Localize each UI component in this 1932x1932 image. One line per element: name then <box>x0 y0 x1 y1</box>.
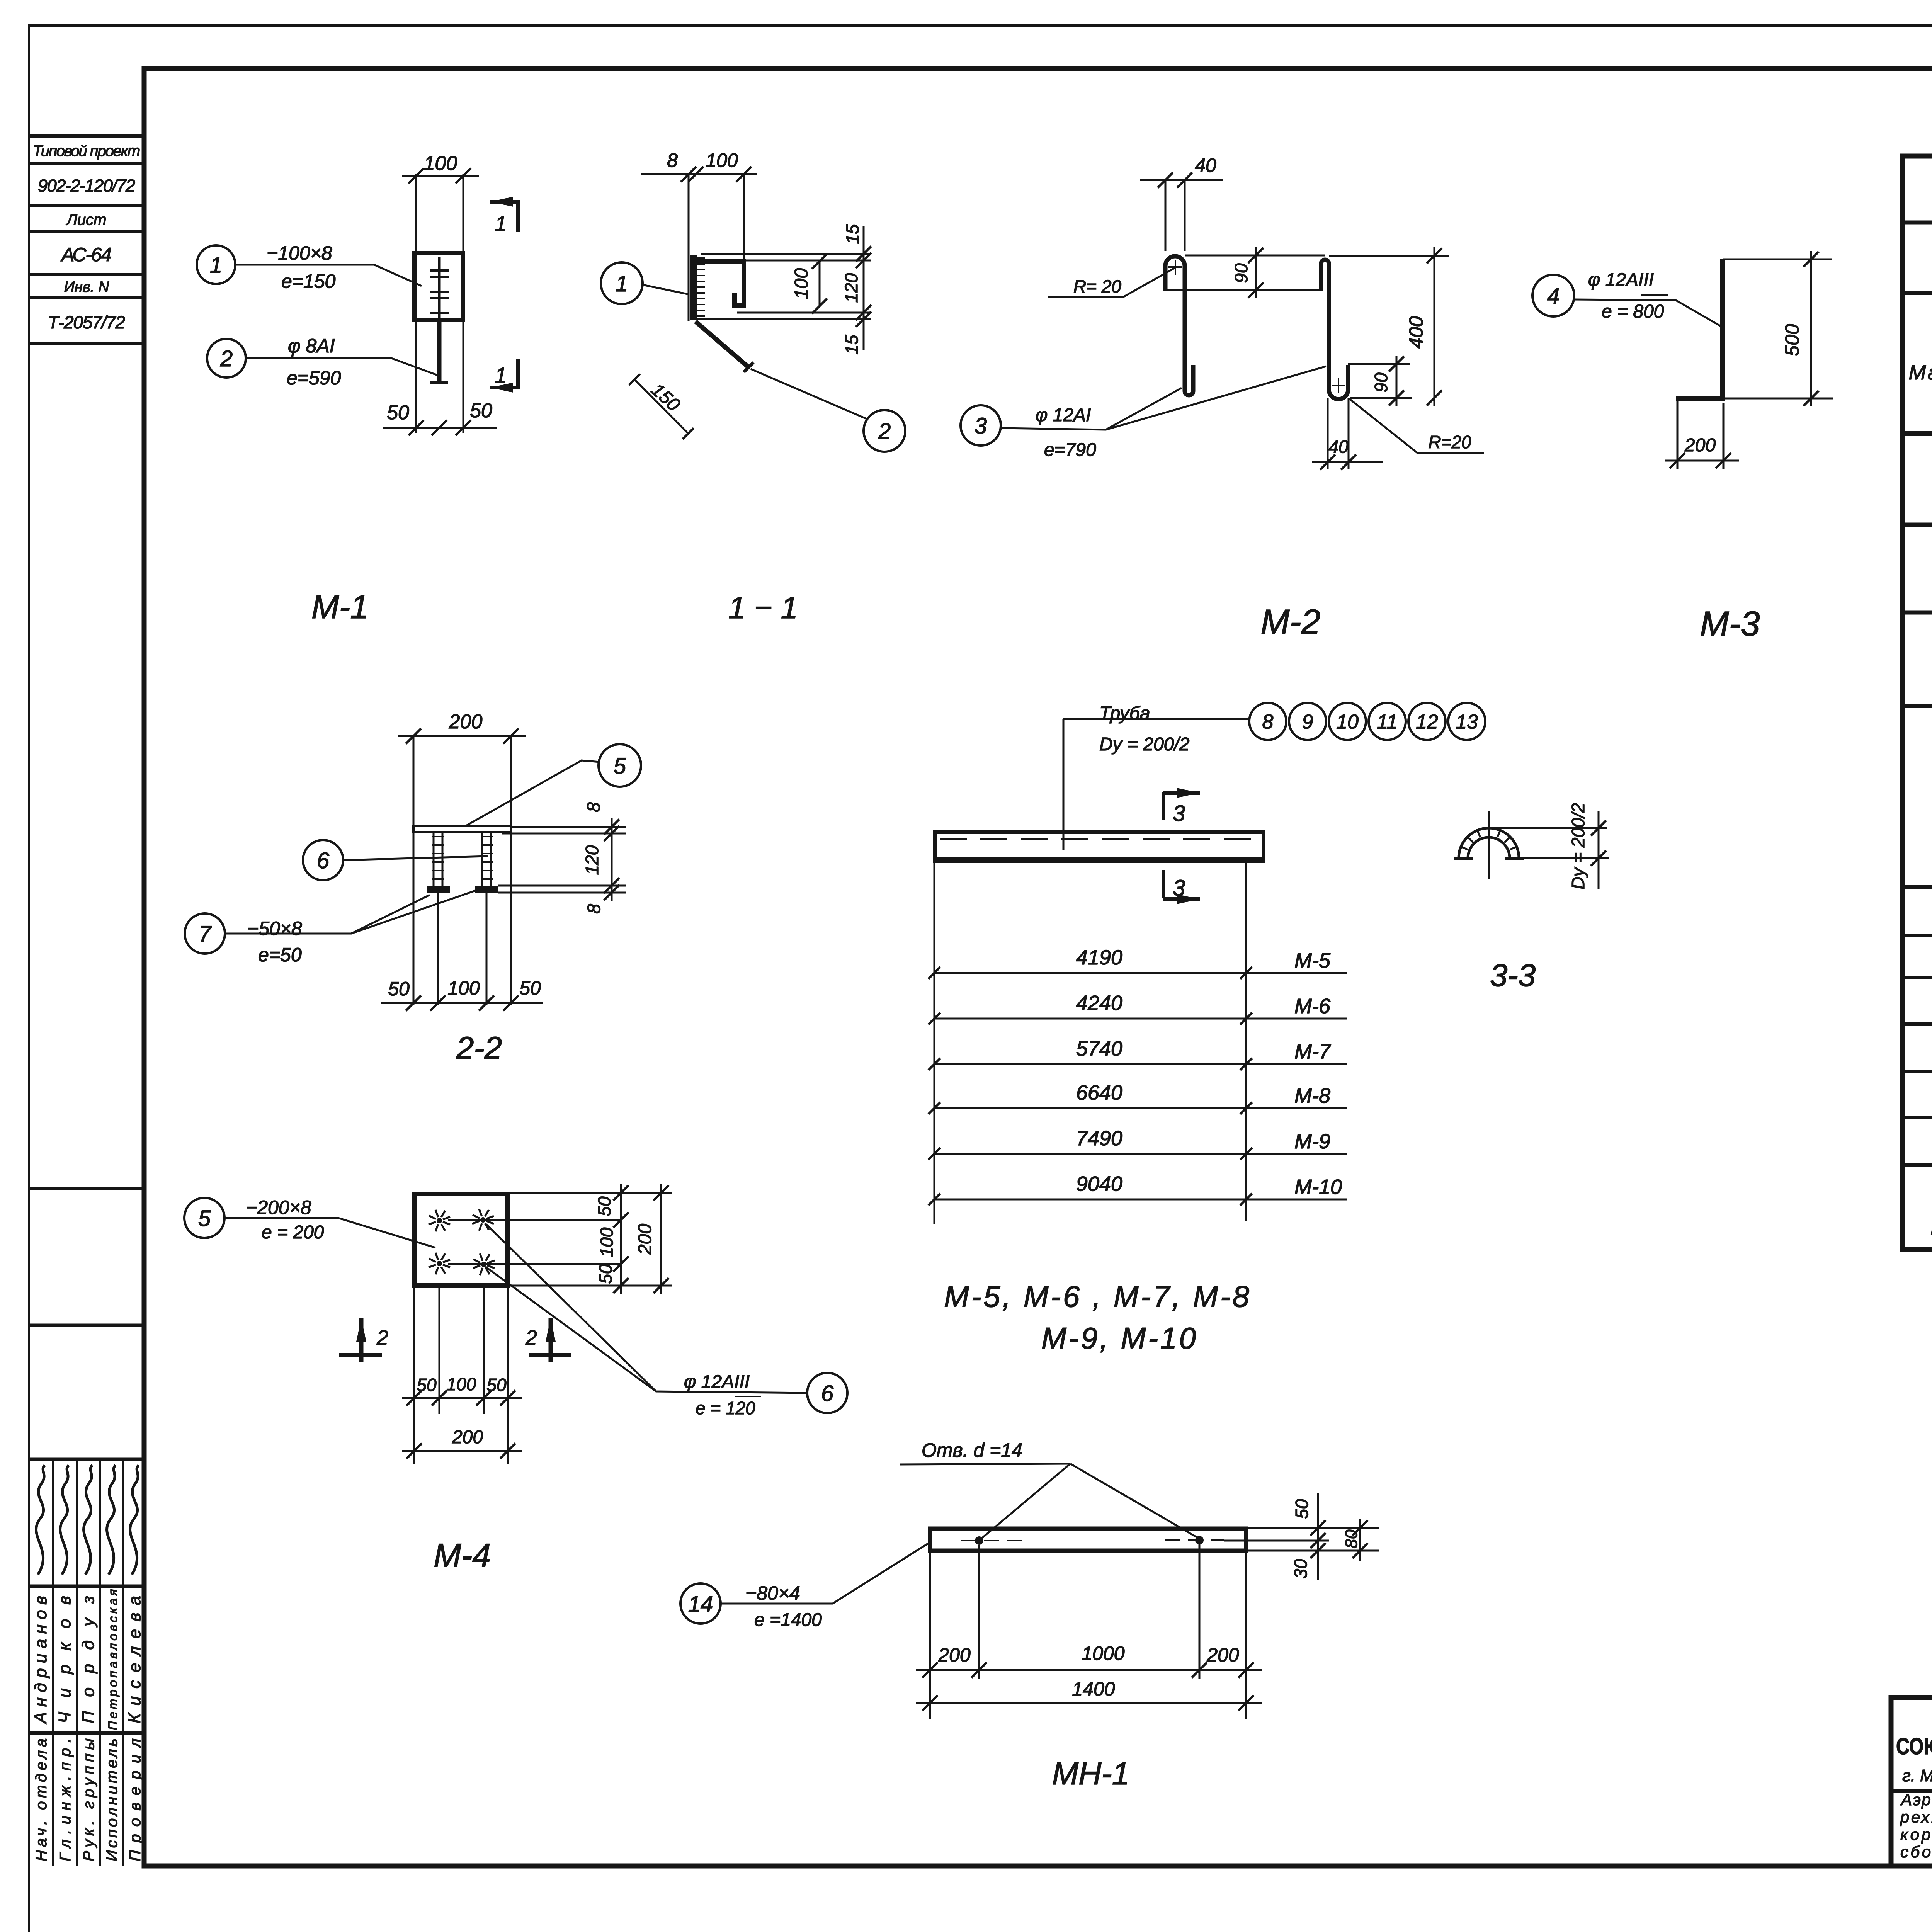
length row М-6 = 4240 <box>934 1018 1347 1020</box>
leader circle 3 (M-2) φ12AI e=790 <box>961 405 1001 446</box>
MH-1 dimension 200/1000/200 <box>916 1669 1262 1671</box>
detail 2-2 stud center extension lines <box>437 893 439 1005</box>
svg-text:9040: 9040 <box>1076 1172 1122 1196</box>
svg-text:200: 200 <box>449 711 483 733</box>
detail 1-1 diagonal dimension 150 <box>634 379 688 434</box>
leader circle 2 (M-1) with label φ8AI e=590 <box>207 339 246 378</box>
detail M-1 section mark 1 bottom <box>516 359 520 388</box>
spec table column header underline <box>1902 431 1932 436</box>
svg-text:СОЮЗВОДОКАНАЛПРОЕКТ: СОЮЗВОДОКАНАЛПРОЕКТ <box>1896 1733 1932 1759</box>
svg-text:−80×4: −80×4 <box>745 1582 800 1604</box>
detail M-4 plate edge extension lines <box>508 1192 672 1194</box>
detail M-1 anchor symbols <box>438 257 441 320</box>
svg-text:e = 200: e = 200 <box>262 1222 324 1243</box>
svg-text:3: 3 <box>1173 876 1185 901</box>
plan plate bottom edge thick <box>935 857 1264 862</box>
svg-text:М-2: М-2 <box>1261 603 1321 641</box>
svg-text:e =1400: e =1400 <box>754 1610 822 1630</box>
svg-text:МН-1: МН-1 <box>1052 1756 1129 1791</box>
spec table outer border <box>1902 156 1932 1250</box>
left strip stamp boxes <box>29 134 144 138</box>
svg-text:30: 30 <box>1291 1559 1311 1579</box>
svg-text:90: 90 <box>1231 263 1251 283</box>
svg-text:Аэротенки- смесители четы-: Аэротенки- смесители четы- <box>1900 1791 1932 1809</box>
svg-text:8: 8 <box>667 150 678 171</box>
svg-text:5740: 5740 <box>1076 1037 1122 1060</box>
svg-text:40: 40 <box>1328 437 1349 457</box>
svg-text:Инв. N: Инв. N <box>64 279 109 295</box>
svg-text:−200×8: −200×8 <box>246 1197 311 1218</box>
detail M-4 bottom dimension 50/100/50 <box>402 1397 522 1399</box>
svg-text:10: 10 <box>1336 711 1359 733</box>
detail M-4 bottom extension verticals <box>413 1286 415 1464</box>
svg-text:15: 15 <box>842 224 862 244</box>
svg-text:50: 50 <box>388 978 410 1000</box>
detail M-4 bottom dimension 200 <box>402 1450 522 1452</box>
detail 2-2 top dimension 200 <box>398 735 526 737</box>
svg-text:100: 100 <box>597 1227 617 1257</box>
svg-text:М-5, М-6 , М-7, М-8: М-5, М-6 , М-7, М-8 <box>944 1279 1249 1313</box>
svg-text:6: 6 <box>821 1381 834 1406</box>
svg-text:2: 2 <box>376 1326 388 1349</box>
detail 1-1 plate (section, filled) <box>690 255 697 320</box>
detail M-4 center dashes <box>448 1220 474 1221</box>
leader circle 1 (M-1) with label -100x8 e=150 <box>197 245 235 284</box>
half-pipe end caps <box>1454 857 1473 860</box>
detail 2-2 right stud <box>481 832 483 886</box>
leader circle 1 (1-1) <box>601 262 643 304</box>
svg-text:М-4: М-4 <box>434 1537 491 1574</box>
svg-text:7490: 7490 <box>1076 1127 1122 1150</box>
leader circle 6 (M-4) φ12AIII e=120 <box>807 1373 847 1413</box>
svg-text:Отв. d =14: Отв. d =14 <box>922 1439 1022 1461</box>
detail M-2 left bar bend cross <box>1168 266 1182 268</box>
spec table block separators (thick) <box>1902 523 1932 527</box>
detail M-3 bar (bent plate) <box>1676 259 1723 398</box>
svg-text:8: 8 <box>583 802 604 812</box>
svg-text:1: 1 <box>210 253 222 278</box>
svg-text:2-2: 2-2 <box>456 1031 502 1066</box>
svg-text:5: 5 <box>614 753 626 779</box>
detail 1-1 weld comb <box>697 257 705 259</box>
plan plate dashed axis <box>940 838 1260 840</box>
leader circle 14 -80x4 e=1400 <box>680 1583 721 1624</box>
svg-text:Труба: Труба <box>1099 703 1150 724</box>
svg-text:100: 100 <box>447 1374 476 1394</box>
svg-text:2: 2 <box>878 419 891 444</box>
detail M-3 dimension 500 <box>1723 259 1832 260</box>
svg-text:г. Москва: г. Москва <box>1902 1766 1932 1785</box>
svg-text:Исполнитель: Исполнитель <box>104 1738 121 1861</box>
svg-text:Dy = 200/2: Dy = 200/2 <box>1099 734 1189 755</box>
svg-text:15: 15 <box>842 335 862 355</box>
length table extension verticals <box>934 861 935 1224</box>
pipe mark circle 9 <box>1289 703 1326 740</box>
svg-text:6: 6 <box>317 848 330 873</box>
svg-text:e=790: e=790 <box>1044 440 1096 460</box>
half-pipe centerline <box>1488 811 1490 879</box>
svg-text:6640: 6640 <box>1076 1081 1122 1104</box>
svg-text:9: 9 <box>1302 711 1313 733</box>
svg-text:8: 8 <box>1262 711 1274 733</box>
detail M-1 rebar below plate <box>437 320 442 382</box>
svg-text:500: 500 <box>1781 324 1803 356</box>
detail M-4 section mark 2 left <box>359 1318 364 1362</box>
svg-text:АС-64: АС-64 <box>60 244 112 265</box>
detail 2-2 plate -200x8 (section) <box>413 826 511 832</box>
svg-text:рехкоридорные с размерами: рехкоридорные с размерами <box>1900 1808 1932 1826</box>
MH-1 holes <box>975 1536 983 1545</box>
half-pipe hatching <box>1460 846 1468 850</box>
leader circle 4 (M-3) φ12AIII e=800 <box>1532 275 1574 316</box>
svg-text:R= 20: R= 20 <box>1073 276 1121 296</box>
svg-text:М-3: М-3 <box>1700 605 1760 643</box>
left strip signing columns <box>52 1459 54 1866</box>
svg-text:200: 200 <box>635 1224 655 1255</box>
detail M-2 dimension 400 <box>1329 255 1449 257</box>
svg-text:1000: 1000 <box>1082 1643 1124 1664</box>
svg-text:e=150: e=150 <box>281 270 336 292</box>
section mark 3 top <box>1162 792 1165 820</box>
detail 2-2 extension verticals <box>413 736 415 1005</box>
detail M-2 left bar (φ12AI with hooks) <box>1165 256 1193 395</box>
svg-text:50: 50 <box>387 401 409 424</box>
title block outline <box>1891 1697 1932 1866</box>
svg-text:1 − 1: 1 − 1 <box>728 590 798 625</box>
svg-text:4: 4 <box>1547 284 1560 309</box>
svg-text:13: 13 <box>1456 711 1478 733</box>
svg-text:7: 7 <box>199 922 212 947</box>
detail 1-1 diagonal strut <box>696 321 749 368</box>
svg-text:80: 80 <box>1342 1529 1361 1548</box>
detail M-2 left bar dimension 40 (top) <box>1140 179 1223 181</box>
svg-text:Т-2057/72: Т-2057/72 <box>48 312 125 332</box>
svg-text:8: 8 <box>584 904 604 914</box>
svg-text:12: 12 <box>1416 711 1438 733</box>
svg-text:М-5: М-5 <box>1294 949 1331 972</box>
svg-text:Марка: Марка <box>1909 361 1932 384</box>
svg-text:4240: 4240 <box>1076 992 1122 1015</box>
detail M-2 right bar (φ12AI with hooks) <box>1321 260 1348 399</box>
pipe mark circle 12 <box>1408 703 1446 740</box>
section mark 3 bottom <box>1162 870 1165 898</box>
pipe mark circle 10 <box>1329 703 1366 740</box>
detail 1-1 dimension 15/120/15 <box>863 226 865 350</box>
svg-text:М-6: М-6 <box>1294 995 1331 1018</box>
svg-text:МН-1: МН-1 <box>1930 1216 1932 1239</box>
svg-text:120: 120 <box>582 845 602 875</box>
MH-1 dimension 50/30 <box>1317 1493 1319 1580</box>
MH-1 leader from circle 14 <box>833 1542 931 1604</box>
detail M-1 top dimension 100 <box>402 175 479 177</box>
svg-text:3: 3 <box>975 413 987 439</box>
svg-text:5: 5 <box>198 1206 211 1231</box>
svg-text:φ 12АIII: φ 12АIII <box>684 1372 750 1392</box>
detail 2-2 left stud <box>433 832 435 886</box>
leader circle 5 (2-2) <box>599 744 641 787</box>
detail M-1 extension lines <box>415 174 417 433</box>
detail M-3 dimension 200 bottom <box>1677 398 1679 469</box>
svg-text:φ 8АI: φ 8АI <box>288 335 335 357</box>
svg-text:200: 200 <box>938 1644 971 1666</box>
pipe mark circle 11 <box>1369 703 1406 740</box>
svg-text:50: 50 <box>595 1264 616 1284</box>
left strip lower rows <box>29 1187 144 1190</box>
length row М-5 = 4190 <box>934 972 1347 974</box>
length row М-9 = 7490 <box>934 1153 1347 1155</box>
svg-text:Dy = 200/2: Dy = 200/2 <box>1568 803 1588 889</box>
svg-text:120: 120 <box>841 273 861 303</box>
leader circle 7 (2-2) -50x8 e=50 <box>185 913 225 954</box>
svg-text:50: 50 <box>470 400 492 422</box>
svg-text:М-7: М-7 <box>1294 1040 1331 1063</box>
svg-text:50: 50 <box>519 977 541 999</box>
svg-text:М-10: М-10 <box>1294 1175 1342 1199</box>
svg-text:11: 11 <box>1377 711 1398 733</box>
title block org row separator <box>1891 1789 1932 1793</box>
svg-text:200: 200 <box>1684 435 1716 456</box>
detail M-4 section mark 2 right <box>549 1318 553 1362</box>
svg-text:e = 120: e = 120 <box>696 1398 755 1418</box>
svg-text:φ 12АI: φ 12АI <box>1036 405 1091 425</box>
detail 2-2 bottom dimension 50/100/50 <box>381 1002 543 1004</box>
signatures column <box>36 1465 45 1575</box>
svg-text:200: 200 <box>452 1427 483 1447</box>
detail M-4 symbol row extension lines <box>448 1219 622 1221</box>
3-3 dimension Dy=200/2 <box>1489 827 1607 829</box>
detail M-1 section mark 1 top <box>490 200 518 204</box>
svg-text:М-9: М-9 <box>1294 1130 1330 1153</box>
svg-text:2: 2 <box>525 1326 537 1349</box>
leader circle 2 (1-1) <box>864 410 905 452</box>
spec table row separators M5-M10 <box>1902 934 1932 937</box>
detail M-1 bottom dimension 50/50 <box>383 427 497 429</box>
svg-text:100: 100 <box>447 977 480 999</box>
svg-text:1: 1 <box>495 363 507 387</box>
leader circle 6 (2-2) <box>303 840 343 880</box>
detail 1-1 bent bar φ8 <box>694 261 744 305</box>
svg-text:сборного железобетона.: сборного железобетона. <box>1900 1843 1932 1861</box>
pipe leader lines <box>1063 718 1248 720</box>
svg-text:коридора 9×5.2×120 из: коридора 9×5.2×120 из <box>1900 1825 1932 1844</box>
detail M-4 rebar symbols <box>437 1218 442 1223</box>
svg-text:Андрианов: Андрианов <box>31 1596 50 1725</box>
svg-text:90: 90 <box>1371 372 1391 393</box>
svg-text:3-3: 3-3 <box>1490 958 1536 993</box>
detail 1-1 top dimension 8 and 100 <box>641 173 757 175</box>
svg-text:φ 12АIII: φ 12АIII <box>1588 270 1654 290</box>
svg-text:100: 100 <box>424 152 457 175</box>
detail M-2 dimension 90 bottom-right <box>1348 363 1410 365</box>
half-pipe section 3-3 <box>1459 828 1519 858</box>
detail 2-2 dimension 8/120/8 <box>611 818 613 901</box>
pipe mark circle 13 <box>1448 703 1485 740</box>
detail 1-1 extension lines right <box>701 253 871 255</box>
svg-text:−100×8: −100×8 <box>267 242 332 264</box>
MH-1 bottom extension verticals <box>929 1551 931 1719</box>
leader circle 5 (M-4) -200x8 e=200 <box>184 1198 224 1238</box>
svg-text:100: 100 <box>791 268 812 299</box>
svg-text:R=20: R=20 <box>1428 432 1471 452</box>
svg-text:М-8: М-8 <box>1294 1084 1330 1107</box>
svg-text:Лист: Лист <box>66 211 107 228</box>
detail M-4 plate -200x8 (plan) <box>414 1194 508 1286</box>
svg-text:100: 100 <box>706 150 738 171</box>
svg-text:e=50: e=50 <box>258 944 302 966</box>
detail M-1 plate -100x8 (plan) <box>414 253 463 320</box>
svg-text:Типовой проект: Типовой проект <box>33 143 140 160</box>
pipe mark circle 8 <box>1249 703 1286 740</box>
svg-text:1400: 1400 <box>1072 1678 1115 1700</box>
detail 2-2 right extension lines <box>511 826 626 828</box>
svg-text:400: 400 <box>1405 316 1427 349</box>
detail 1-1 dimension 100 (bar drop) <box>819 261 821 306</box>
detail M-2 dimension 90 between bars <box>1185 255 1325 257</box>
svg-text:1: 1 <box>616 271 628 296</box>
svg-text:4190: 4190 <box>1076 946 1122 969</box>
svg-text:50: 50 <box>1292 1499 1312 1519</box>
svg-text:902-2-120/72: 902-2-120/72 <box>38 176 135 196</box>
svg-text:М-1: М-1 <box>311 588 369 626</box>
detail 1-1 extension verticals <box>688 174 690 321</box>
svg-text:e = 800: e = 800 <box>1602 301 1664 322</box>
length row М-10 = 9040 <box>934 1199 1347 1201</box>
svg-text:e=590: e=590 <box>287 367 341 389</box>
svg-text:50: 50 <box>594 1196 614 1216</box>
svg-text:2: 2 <box>220 346 233 371</box>
length row М-7 = 5740 <box>934 1063 1347 1065</box>
svg-text:200: 200 <box>1206 1644 1239 1666</box>
detail M-4 dimension 50/100/50 right <box>620 1184 622 1294</box>
MH-1 right extension lines <box>1246 1527 1379 1529</box>
svg-text:3: 3 <box>1173 801 1185 826</box>
length row М-8 = 6640 <box>934 1107 1347 1109</box>
MH-1 dimension 1400 <box>916 1702 1262 1704</box>
svg-text:14: 14 <box>688 1592 713 1617</box>
svg-text:50: 50 <box>486 1375 507 1395</box>
svg-text:−50×8: −50×8 <box>247 918 302 939</box>
detail M-2 right bar bottom cross <box>1332 385 1345 386</box>
detail M-4 dimension 200 right <box>660 1184 662 1294</box>
svg-text:1: 1 <box>495 211 507 236</box>
detail M-2 bottom dimension 40 <box>1327 398 1329 469</box>
plan plate (M-5..M-10) <box>935 832 1264 861</box>
MH-1 dimension 80 <box>1359 1519 1361 1561</box>
svg-text:50: 50 <box>417 1375 437 1395</box>
svg-text:40: 40 <box>1195 155 1216 176</box>
MH-1 plate -80x4 (side view) <box>930 1529 1246 1551</box>
